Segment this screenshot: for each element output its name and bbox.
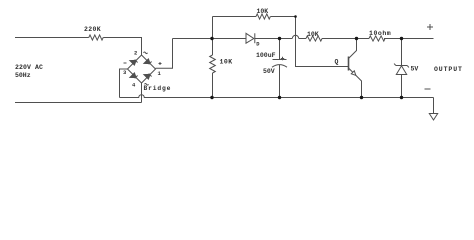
svg-text:2: 2	[134, 49, 137, 56]
svg-text:50Hz: 50Hz	[15, 72, 31, 79]
svg-text:10K: 10K	[220, 59, 233, 66]
svg-text:10ohm: 10ohm	[369, 30, 391, 37]
svg-text:10K: 10K	[257, 8, 269, 15]
svg-text:OUTPUT: OUTPUT	[434, 66, 463, 73]
svg-text:Q: Q	[335, 59, 339, 66]
svg-text:100uF: 100uF	[256, 52, 276, 59]
svg-text:5V: 5V	[411, 66, 419, 73]
svg-text:220V AC: 220V AC	[15, 64, 43, 71]
svg-text:50V: 50V	[263, 68, 275, 75]
svg-text:Bridge: Bridge	[144, 85, 172, 92]
svg-text:10K: 10K	[307, 31, 319, 38]
svg-text:220K: 220K	[84, 26, 101, 33]
